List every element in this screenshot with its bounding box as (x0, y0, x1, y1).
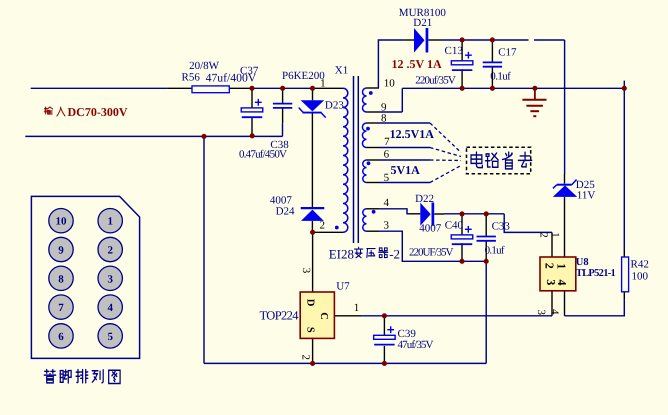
svg-text:2: 2 (107, 245, 113, 257)
svg-text:10: 10 (56, 216, 68, 228)
svg-text:6: 6 (384, 148, 390, 160)
svg-text:R56: R56 (182, 72, 201, 84)
svg-text:11V: 11V (577, 189, 596, 201)
svg-text:P6KE200: P6KE200 (282, 70, 325, 82)
svg-text:U8: U8 (576, 257, 589, 268)
svg-text:R42: R42 (631, 259, 649, 271)
svg-text:7: 7 (384, 136, 390, 148)
svg-text:2: 2 (537, 232, 549, 238)
svg-text:EI28: EI28 (329, 247, 354, 262)
svg-text:6: 6 (58, 331, 64, 343)
svg-text:8: 8 (381, 112, 387, 124)
svg-text:0.47uf/450V: 0.47uf/450V (239, 149, 287, 161)
svg-text:C: C (318, 312, 329, 320)
svg-text:X1: X1 (335, 65, 348, 77)
svg-text:20/8W: 20/8W (189, 60, 220, 72)
svg-text:7: 7 (58, 302, 64, 314)
svg-text:3: 3 (535, 309, 547, 315)
svg-text:4: 4 (107, 302, 113, 314)
svg-text:4: 4 (548, 309, 560, 315)
svg-text:5: 5 (107, 331, 113, 343)
svg-text:100: 100 (632, 271, 649, 283)
svg-text:5: 5 (384, 172, 390, 184)
svg-text:0.1uf: 0.1uf (485, 245, 505, 257)
svg-text:4: 4 (384, 197, 390, 209)
svg-text:1: 1 (107, 216, 113, 228)
svg-text:1: 1 (555, 263, 569, 269)
svg-text:TLP521-1: TLP521-1 (576, 268, 616, 279)
svg-text:47uf/35V: 47uf/35V (398, 339, 434, 351)
svg-text:9: 9 (58, 245, 64, 257)
svg-text:5V1A: 5V1A (391, 163, 421, 177)
svg-text:D22: D22 (415, 193, 434, 205)
svg-text:4007: 4007 (270, 194, 293, 206)
svg-text:0.1uf: 0.1uf (490, 70, 511, 82)
svg-text:C39: C39 (398, 328, 417, 340)
svg-text:4007: 4007 (419, 223, 442, 235)
svg-text:1: 1 (320, 77, 326, 89)
svg-text:U7: U7 (336, 281, 350, 293)
svg-text:C33: C33 (492, 220, 511, 232)
svg-text:8: 8 (58, 273, 64, 285)
svg-text:DC70-300V: DC70-300V (68, 105, 128, 119)
svg-text:10: 10 (384, 78, 396, 90)
svg-text:220uf/35V: 220uf/35V (415, 75, 456, 87)
svg-text:4: 4 (555, 280, 569, 286)
svg-text:220UF/35V: 220UF/35V (409, 247, 454, 259)
svg-text:1: 1 (549, 232, 561, 238)
svg-text:D21: D21 (413, 17, 432, 29)
svg-text:TOP224: TOP224 (260, 309, 300, 323)
svg-text:D: D (305, 299, 316, 307)
svg-text:-2: -2 (389, 247, 400, 262)
svg-text:2: 2 (543, 263, 557, 269)
svg-text:3: 3 (300, 268, 312, 274)
svg-text:47uf/400V: 47uf/400V (206, 72, 257, 85)
svg-text:12 .5V 1A: 12 .5V 1A (392, 57, 442, 71)
svg-text:2: 2 (320, 220, 326, 232)
svg-text:3: 3 (384, 219, 390, 231)
svg-text:S: S (305, 327, 316, 333)
svg-text:D23: D23 (325, 100, 344, 112)
svg-text:12.5V1A: 12.5V1A (390, 127, 435, 141)
svg-text:2: 2 (299, 355, 311, 361)
svg-text:3: 3 (107, 273, 113, 285)
svg-text:C13: C13 (445, 45, 464, 57)
svg-text:1: 1 (354, 302, 360, 314)
svg-text:D24: D24 (276, 206, 295, 218)
svg-text:C17: C17 (498, 47, 517, 59)
svg-text:C40: C40 (445, 220, 464, 232)
